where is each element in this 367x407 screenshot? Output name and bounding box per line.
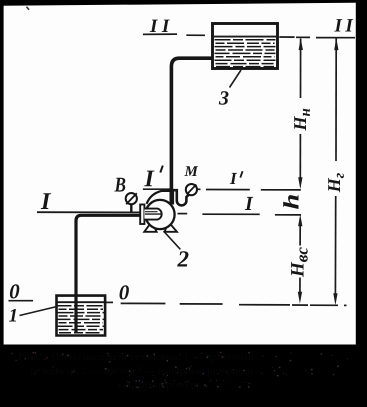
svg-text:Рис. 9. Схема насосной установ: Рис. 9. Схема насосной установки: 1 — пр… — [18, 351, 254, 363]
svg-text:резервуар; 2 — насос; 3 — напо: резервуар; 2 — насос; 3 — напорный резер… — [30, 365, 253, 377]
